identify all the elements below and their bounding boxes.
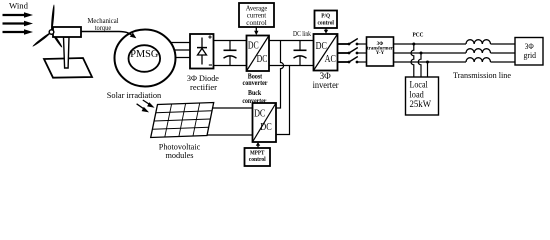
svg-text:Y-Y: Y-Y bbox=[376, 51, 385, 56]
label Buck converter bbox=[242, 90, 266, 105]
svg-text:Transmission line: Transmission line bbox=[453, 70, 511, 80]
svg-text:PMSG: PMSG bbox=[130, 49, 158, 60]
wind arrow 1 bbox=[3, 12, 34, 18]
wire pv to buck bottom bbox=[207, 134, 253, 136]
wire PCC drop B (hops over C) bbox=[418, 53, 421, 77]
arrow MPPT to buck bbox=[256, 142, 260, 148]
photovoltaic panel bbox=[151, 103, 214, 138]
switch S1 phase A bbox=[338, 39, 367, 46]
solar arrow 1 bbox=[143, 100, 155, 108]
capacitor C1 bbox=[224, 41, 237, 66]
label Mechanical torque bbox=[88, 17, 119, 32]
wire transformer to grid phase B bbox=[394, 52, 467, 54]
wind turbine base bbox=[44, 58, 92, 78]
wind turbine blade down-left bbox=[32, 31, 52, 47]
wire transformer to grid phase C bbox=[394, 61, 467, 63]
svg-text:Local: Local bbox=[410, 81, 429, 91]
label Boost converter bbox=[243, 73, 268, 86]
transformer box bbox=[367, 37, 394, 66]
switch S3 phase C bbox=[338, 57, 367, 64]
3-phase diode rectifier box bbox=[190, 34, 214, 69]
wire transformer to grid phase A bbox=[394, 43, 467, 45]
wind arrow 2 bbox=[3, 21, 34, 27]
svg-text:Buck: Buck bbox=[248, 90, 261, 97]
node PCC phase A bbox=[412, 43, 415, 46]
switch S2 phase B bbox=[338, 48, 367, 55]
wind turbine tower bbox=[64, 37, 70, 68]
wind turbine blade down-right bbox=[50, 31, 63, 48]
svg-text:converter: converter bbox=[242, 98, 266, 105]
svg-text:PCC: PCC bbox=[413, 32, 424, 39]
wire rectifier to boost (DC bus) bbox=[214, 41, 247, 66]
solar arrow 2 bbox=[137, 104, 150, 113]
wire buck plus to dc link top (with hop) bbox=[276, 41, 284, 109]
wire pv to buck top bbox=[212, 107, 253, 109]
label Photovoltaic modules bbox=[159, 142, 201, 161]
3-phase inverter box bbox=[314, 34, 338, 71]
local load box bbox=[406, 77, 439, 115]
node PCC phase C bbox=[426, 61, 429, 64]
generator PMSG bbox=[115, 30, 176, 87]
wind turbine hub bbox=[49, 30, 54, 35]
wind turbine nacelle bbox=[53, 27, 81, 37]
svg-text:DC: DC bbox=[257, 54, 268, 65]
transmission inductor phase B bbox=[466, 49, 491, 53]
svg-text:DC: DC bbox=[248, 41, 259, 52]
boost converter box bbox=[247, 36, 270, 72]
rectifier plus sign bbox=[208, 35, 211, 38]
svg-text:grid: grid bbox=[524, 50, 537, 60]
buck converter box bbox=[253, 103, 277, 142]
transmission inductor phase C bbox=[466, 58, 491, 62]
svg-text:control: control bbox=[246, 19, 266, 27]
average current control box bbox=[239, 3, 274, 27]
svg-text:P/Q: P/Q bbox=[321, 12, 330, 19]
grid box bbox=[515, 38, 543, 66]
wire PCC drop A (hops over B and C) bbox=[411, 44, 414, 77]
svg-text:modules: modules bbox=[166, 150, 195, 160]
arrow P/Q to inverter bbox=[324, 28, 328, 34]
svg-text:load: load bbox=[410, 90, 425, 100]
svg-text:Solar irradiation: Solar irradiation bbox=[107, 90, 162, 100]
wire buck minus to dc link bottom bbox=[276, 66, 290, 135]
svg-text:DC: DC bbox=[254, 108, 266, 119]
svg-text:control: control bbox=[317, 19, 334, 26]
label 3-phase diode rectifier bbox=[187, 73, 219, 92]
node PCC phase B bbox=[420, 52, 423, 55]
wire PCC drop C bbox=[427, 62, 429, 77]
rectifier diode D1 bbox=[197, 38, 207, 65]
svg-text:rectifier: rectifier bbox=[190, 82, 217, 92]
arrow avg control to boost bbox=[254, 27, 258, 35]
wind turbine blade up bbox=[50, 4, 55, 32]
svg-text:DC: DC bbox=[316, 41, 328, 52]
wire boost to inverter (DC link bus) bbox=[269, 41, 314, 66]
label 3-phase inverter bbox=[313, 71, 339, 90]
P/Q control box bbox=[315, 11, 338, 29]
svg-text:25kW: 25kW bbox=[410, 100, 432, 110]
svg-text:Wind: Wind bbox=[9, 0, 29, 10]
mechanical torque arrow bbox=[81, 32, 136, 39]
svg-text:control: control bbox=[249, 156, 266, 163]
rectifier minus sign bbox=[209, 64, 212, 66]
transmission inductor phase A bbox=[466, 40, 491, 44]
wire PMSG to rectifier (3 phases) bbox=[160, 43, 190, 58]
svg-text:converter: converter bbox=[243, 80, 268, 87]
dc link capacitor C2 bbox=[294, 41, 307, 66]
wind arrow 3 bbox=[3, 29, 34, 35]
svg-text:DC: DC bbox=[260, 122, 272, 133]
svg-text:inverter: inverter bbox=[313, 80, 339, 90]
svg-text:AC: AC bbox=[325, 54, 337, 65]
svg-text:DC link: DC link bbox=[293, 31, 311, 38]
MPPT control box bbox=[245, 148, 271, 166]
